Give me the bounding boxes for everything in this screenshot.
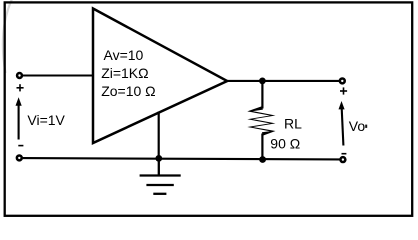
- svg-text:Av=10: Av=10: [104, 47, 144, 63]
- arrow Vo: [339, 101, 345, 146]
- node output + terminal: [340, 78, 345, 83]
- tick after Vo: [365, 125, 367, 128]
- plus sign input: [17, 84, 24, 91]
- junction node output: [259, 78, 266, 85]
- plus sign output: [340, 87, 347, 94]
- wire output from apex: [227, 80, 340, 82]
- ground: [140, 158, 181, 193]
- svg-text:Zo=10 Ω: Zo=10 Ω: [101, 83, 155, 99]
- junction node resistor bottom: [259, 156, 266, 163]
- wire bottom rail: [23, 158, 340, 159]
- faint watermark arc: [3, 0, 12, 73]
- svg-text:Vo: Vo: [349, 118, 366, 134]
- wire input top: [23, 74, 94, 76]
- minus sign input: [18, 145, 23, 147]
- svg-text:Zi=1KΩ: Zi=1KΩ: [101, 65, 148, 81]
- wire resistor top lead: [261, 81, 263, 109]
- arrow Vi: [16, 97, 22, 139]
- op-amp U1 (amplifier triangle): [93, 9, 227, 144]
- node input - terminal: [17, 155, 22, 160]
- wire resistor bottom lead: [261, 134, 263, 160]
- svg-text:RL: RL: [284, 115, 302, 131]
- svg-text:Vi=1V: Vi=1V: [27, 112, 65, 128]
- junction ground node: [155, 155, 162, 162]
- node input + terminal: [17, 73, 22, 78]
- minus sign output: [342, 153, 347, 155]
- resistor RL: [247, 106, 275, 135]
- wire op-amp bottom to rail: [158, 112, 160, 159]
- node output - terminal: [340, 157, 345, 162]
- svg-text:90 Ω: 90 Ω: [270, 136, 300, 152]
